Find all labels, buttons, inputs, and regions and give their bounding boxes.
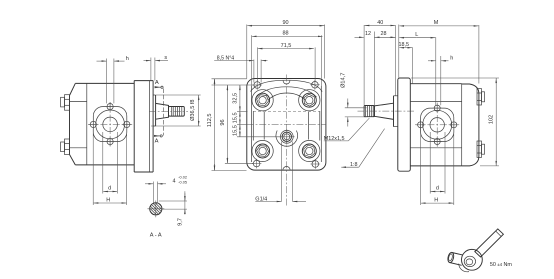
- svg-text:H: H: [106, 197, 110, 203]
- svg-text:A: A: [155, 139, 159, 145]
- svg-text:A - A: A - A: [150, 232, 162, 238]
- svg-text:h: h: [126, 56, 129, 62]
- svg-text:15,5: 15,5: [233, 112, 239, 123]
- svg-text:H: H: [434, 197, 438, 203]
- svg-text:M: M: [434, 20, 439, 26]
- svg-text:1:8: 1:8: [350, 162, 358, 168]
- svg-text:18,5: 18,5: [399, 42, 410, 48]
- svg-text:28: 28: [381, 31, 387, 37]
- svg-text:96: 96: [220, 119, 226, 125]
- svg-text:32,5: 32,5: [233, 93, 239, 104]
- svg-text:-0.05: -0.05: [178, 181, 187, 185]
- svg-text:112,5: 112,5: [207, 114, 213, 128]
- svg-text:A: A: [155, 80, 159, 86]
- svg-text:s: s: [164, 55, 167, 61]
- svg-text:102: 102: [489, 115, 495, 124]
- svg-text:9,7: 9,7: [178, 218, 184, 226]
- svg-text:88: 88: [282, 31, 288, 37]
- svg-text:Ø14,7: Ø14,7: [340, 73, 346, 88]
- svg-text:Ø36,5 f8: Ø36,5 f8: [190, 99, 196, 120]
- svg-text:-0.02: -0.02: [178, 176, 187, 180]
- svg-text:d: d: [108, 186, 111, 192]
- svg-text:50 ±4 Nm: 50 ±4 Nm: [490, 262, 513, 268]
- svg-text:40: 40: [377, 20, 383, 26]
- svg-text:71,5: 71,5: [281, 43, 292, 49]
- svg-text:d: d: [436, 186, 439, 192]
- svg-text:12: 12: [365, 31, 371, 37]
- svg-text:4: 4: [173, 179, 176, 185]
- svg-text:L: L: [415, 32, 418, 38]
- svg-text:h: h: [450, 55, 453, 61]
- svg-text:15,5: 15,5: [233, 125, 239, 136]
- svg-text:90: 90: [282, 20, 288, 26]
